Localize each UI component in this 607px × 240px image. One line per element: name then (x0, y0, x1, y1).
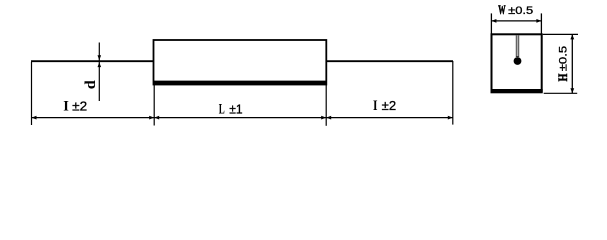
svg-text:H: H (555, 74, 570, 82)
label I +-2 right (373, 98, 396, 114)
arrowhead left I tip left (32, 116, 37, 120)
arrowhead d lower (98, 62, 102, 67)
arrowhead right I tip right (448, 116, 453, 120)
end view lead dark edges (516, 35, 519, 57)
end view lead dot (514, 57, 522, 65)
extension line W left (490, 13, 492, 34)
label W +-0.5 (498, 2, 533, 17)
arrowhead H bottom (570, 88, 574, 93)
extension line W right (540, 13, 542, 34)
arrowhead L tip left (154, 116, 159, 120)
extension line far left (31, 62, 33, 125)
svg-text:W: W (498, 2, 505, 17)
svg-text:L: L (219, 102, 225, 118)
resistor body outline (154, 40, 327, 85)
extension line H top (543, 33, 578, 35)
svg-text:±2: ±2 (382, 98, 397, 113)
end view lead gray core (517, 35, 519, 56)
svg-text:d: d (83, 80, 99, 90)
extension line H bottom (544, 92, 578, 94)
dimension line d vertical (98, 43, 100, 102)
svg-text:±1: ±1 (229, 101, 242, 116)
dimension line W (491, 20, 541, 22)
right lead wire (327, 60, 454, 62)
svg-text:±2: ±2 (72, 99, 87, 114)
extension line body right (325, 85, 327, 126)
end view bottom thick edge (491, 89, 543, 92)
dimension line H (571, 34, 573, 93)
end view body outline (492, 34, 542, 92)
arrowhead L tip right (321, 116, 326, 120)
resistor body bottom thick edge (153, 81, 327, 85)
label I +-2 left (63, 99, 87, 115)
svg-text:I: I (373, 98, 378, 114)
arrowhead W left (491, 19, 496, 23)
extension line far right (452, 61, 454, 125)
svg-text:±0.5: ±0.5 (508, 5, 533, 17)
label H +-0.5 rotated (555, 46, 570, 82)
extension line body left (153, 85, 155, 126)
svg-text:±0.5: ±0.5 (558, 46, 570, 72)
arrowhead right I tip left (326, 116, 331, 120)
svg-text:I: I (63, 99, 69, 115)
dimension line I L I horizontal (32, 117, 453, 119)
arrowhead d upper (98, 55, 102, 60)
left lead wire (31, 60, 154, 62)
arrowhead W right (536, 19, 541, 23)
arrowhead H top (570, 34, 574, 39)
label L +-1 (219, 101, 243, 117)
arrowhead left I tip right (149, 116, 154, 120)
